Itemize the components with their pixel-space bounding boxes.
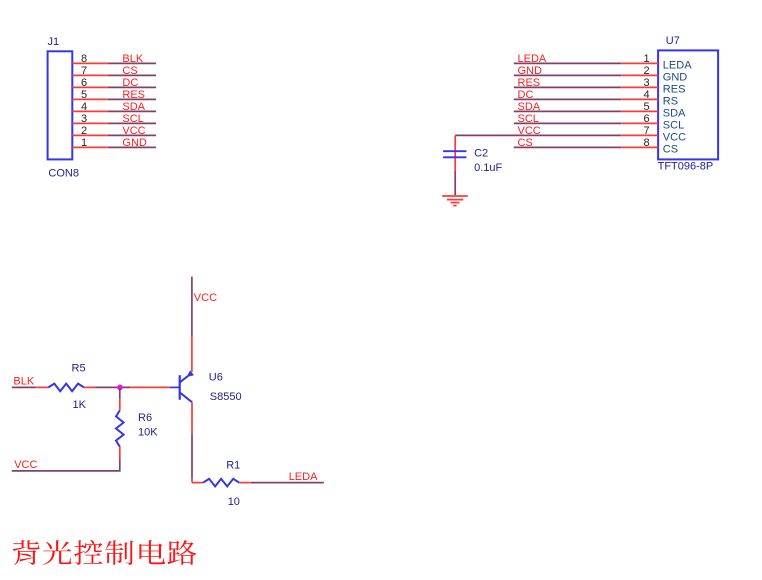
svg-text:7: 7 (81, 65, 87, 77)
svg-text:BLK: BLK (13, 376, 34, 388)
svg-text:LEDA: LEDA (289, 471, 318, 483)
svg-text:LEDA: LEDA (518, 53, 547, 65)
svg-text:6: 6 (643, 113, 649, 125)
svg-text:RES: RES (122, 89, 145, 101)
svg-text:1K: 1K (73, 399, 87, 411)
svg-text:DC: DC (518, 89, 534, 101)
svg-text:1: 1 (643, 53, 649, 65)
svg-text:3: 3 (643, 77, 649, 89)
svg-text:8: 8 (81, 53, 87, 65)
svg-text:R6: R6 (138, 412, 152, 424)
svg-text:J1: J1 (48, 36, 60, 48)
svg-text:R1: R1 (226, 459, 240, 471)
svg-text:GND: GND (518, 65, 543, 77)
svg-text:5: 5 (643, 101, 649, 113)
svg-text:SDA: SDA (518, 101, 541, 113)
svg-text:CS: CS (122, 65, 137, 77)
svg-text:BLK: BLK (122, 53, 143, 65)
svg-text:4: 4 (81, 101, 87, 113)
svg-text:LEDA: LEDA (663, 60, 692, 72)
svg-text:5: 5 (81, 89, 87, 101)
svg-text:RES: RES (518, 77, 541, 89)
svg-text:2: 2 (81, 125, 87, 137)
svg-text:6: 6 (81, 77, 87, 89)
svg-text:S8550: S8550 (210, 391, 242, 403)
svg-text:7: 7 (643, 125, 649, 137)
svg-text:VCC: VCC (194, 292, 217, 304)
svg-text:3: 3 (81, 113, 87, 125)
svg-text:CS: CS (518, 137, 533, 149)
svg-text:2: 2 (643, 65, 649, 77)
svg-text:RES: RES (663, 84, 686, 96)
svg-text:RS: RS (663, 96, 678, 108)
svg-text:VCC: VCC (14, 459, 37, 471)
svg-text:SCL: SCL (518, 113, 539, 125)
svg-text:10: 10 (228, 496, 240, 508)
svg-text:10K: 10K (138, 426, 158, 438)
svg-text:TFT096-8P: TFT096-8P (658, 161, 714, 173)
svg-text:VCC: VCC (663, 132, 686, 144)
svg-text:SDA: SDA (663, 108, 686, 120)
svg-text:R5: R5 (72, 363, 86, 375)
svg-text:CS: CS (663, 144, 678, 156)
svg-text:0.1uF: 0.1uF (474, 162, 502, 174)
svg-text:U7: U7 (666, 35, 680, 47)
svg-text:1: 1 (81, 137, 87, 149)
svg-text:U6: U6 (209, 371, 223, 383)
svg-text:SDA: SDA (122, 101, 145, 113)
svg-text:CON8: CON8 (48, 168, 79, 180)
svg-text:SCL: SCL (122, 113, 143, 125)
svg-text:GND: GND (122, 137, 146, 149)
svg-text:C2: C2 (474, 147, 488, 159)
svg-text:SCL: SCL (663, 120, 684, 132)
svg-text:VCC: VCC (122, 125, 145, 137)
svg-text:4: 4 (643, 89, 649, 101)
svg-text:8: 8 (643, 137, 649, 149)
svg-text:DC: DC (122, 77, 138, 89)
svg-text:VCC: VCC (518, 125, 541, 137)
svg-text:GND: GND (663, 72, 688, 84)
